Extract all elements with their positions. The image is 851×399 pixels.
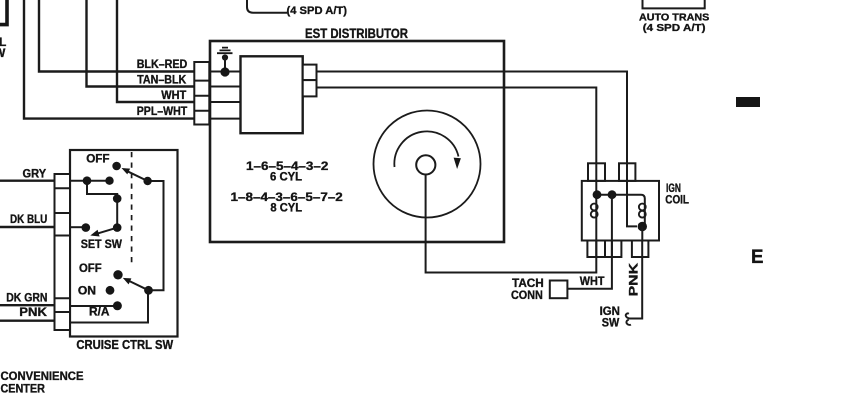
svg-text:8 CYL: 8 CYL <box>270 200 302 214</box>
svg-text:SET SW: SET SW <box>81 237 123 251</box>
svg-text:W: W <box>0 46 6 60</box>
svg-text:(4 SPD A/T): (4 SPD A/T) <box>643 22 706 34</box>
svg-text:COIL: COIL <box>665 192 689 206</box>
svg-text:PNK: PNK <box>19 305 47 319</box>
svg-text:DK BLU: DK BLU <box>10 212 47 226</box>
svg-text:PPL–WHT: PPL–WHT <box>137 104 188 118</box>
svg-text:CRUISE CTRL SW: CRUISE CTRL SW <box>76 338 173 352</box>
svg-text:GRY: GRY <box>23 167 47 181</box>
svg-text:6 CYL: 6 CYL <box>270 170 302 184</box>
svg-text:EST DISTRIBUTOR: EST DISTRIBUTOR <box>305 26 408 41</box>
svg-text:SW: SW <box>602 316 620 330</box>
svg-text:OFF: OFF <box>86 151 109 165</box>
svg-text:WHT: WHT <box>161 88 187 102</box>
svg-text:CENTER: CENTER <box>1 381 46 395</box>
svg-text:DK GRN: DK GRN <box>6 290 47 304</box>
svg-text:R/A: R/A <box>89 305 110 319</box>
svg-text:E: E <box>751 247 764 268</box>
svg-text:ON: ON <box>78 284 96 298</box>
svg-text:(4 SPD A/T): (4 SPD A/T) <box>287 5 348 17</box>
svg-text:CONN: CONN <box>511 288 543 302</box>
svg-text:OFF: OFF <box>79 261 102 275</box>
svg-text:BLK–RED: BLK–RED <box>137 57 188 71</box>
svg-text:PNK: PNK <box>627 263 641 297</box>
svg-text:TAN–BLK: TAN–BLK <box>137 73 186 87</box>
svg-text:WHT: WHT <box>580 274 605 288</box>
